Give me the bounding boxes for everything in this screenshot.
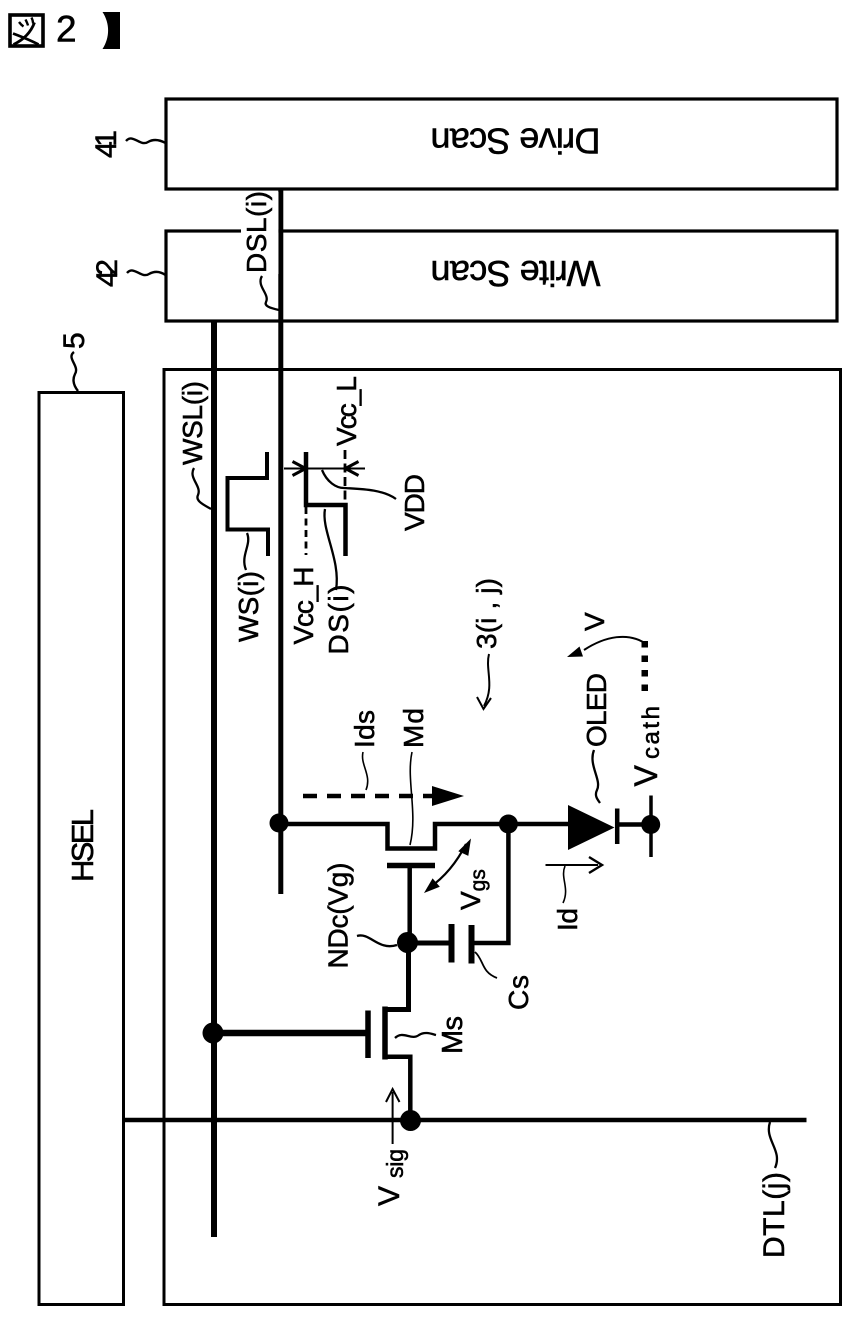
dotted continuation of cathode rail xyxy=(642,641,649,691)
svg-text:5: 5 xyxy=(58,332,91,349)
svg-text:NDc(Vg): NDc(Vg) xyxy=(323,863,354,969)
waveform DS(i) pulse xyxy=(306,452,346,556)
wire cathode to Vcath node xyxy=(619,822,651,827)
wire WSL(i) scan line xyxy=(211,320,217,1237)
svg-text:2: 2 xyxy=(56,9,77,50)
capacitor Cs left plate xyxy=(449,924,455,963)
leader squiggle DSL(i) xyxy=(260,276,279,310)
leader squiggle Md xyxy=(410,752,413,845)
leader squiggle DTL(j) xyxy=(769,1122,777,1168)
diode OLED cathode bar xyxy=(615,809,620,845)
diode OLED anode triangle xyxy=(568,805,615,850)
leader squiggle 42 xyxy=(127,270,166,275)
leader squiggle 41 xyxy=(126,138,166,143)
white mask under DSL(i) label xyxy=(241,192,278,274)
leader squiggle 5 xyxy=(71,352,78,391)
leader squiggle OLED xyxy=(592,750,600,803)
leader squiggle Id xyxy=(563,866,566,903)
arrowhead Ids xyxy=(432,786,464,806)
svg-text:WS(i): WS(i) xyxy=(233,571,264,642)
wire Cs to node NDc xyxy=(408,941,449,946)
leader squiggle WS(i) xyxy=(244,533,248,570)
svg-text:WSL(i): WSL(i) xyxy=(177,381,208,465)
wire power rail with Md channel hump xyxy=(278,824,569,849)
svg-text:Ms: Ms xyxy=(437,1016,469,1054)
dashed level Vcc_L extension xyxy=(344,450,347,501)
svg-text:V: V xyxy=(579,612,610,631)
svg-text:Ids: Ids xyxy=(349,710,380,748)
arrowhead Vsig xyxy=(386,1089,400,1102)
svg-text:V: V xyxy=(373,1186,406,1206)
svg-text:Cs: Cs xyxy=(503,975,534,1010)
svg-text:Vcc_L: Vcc_L xyxy=(331,376,362,446)
svg-text:V: V xyxy=(628,765,664,787)
leader squiggle Ms xyxy=(395,1033,436,1038)
dashed level Vcc_H extension xyxy=(305,507,308,555)
signal arrow Vsig xyxy=(392,1092,394,1144)
transistor Ms channel bar xyxy=(382,1007,388,1060)
leader squiggle NDc xyxy=(357,935,397,946)
arrowhead at Vcc_H level xyxy=(293,462,308,476)
svg-text:HSEL: HSEL xyxy=(65,809,100,882)
block 5 HSEL xyxy=(39,393,124,1305)
svg-text:cath: cath xyxy=(638,706,665,759)
wire from source node down to Cs xyxy=(475,824,509,943)
leader squiggle Cs xyxy=(475,952,497,978)
node junction dot on DTL xyxy=(400,1110,421,1131)
transistor Ms gate bar xyxy=(365,1011,371,1059)
curved arrow V across OLED xyxy=(584,637,643,650)
curved arrow Vgs xyxy=(429,844,466,888)
svg-text:DSL(i): DSL(i) xyxy=(241,191,272,273)
figure title 図2】 xyxy=(10,9,120,50)
leader squiggle Ids xyxy=(363,752,368,790)
svg-text:Id: Id xyxy=(552,908,583,931)
waveform WS(i) pulse xyxy=(228,452,269,556)
current arrow Id xyxy=(546,864,599,866)
terminal bar Vcath rail xyxy=(649,796,653,858)
node NDc junction dot xyxy=(397,932,418,953)
svg-text:sig: sig xyxy=(382,1149,408,1178)
svg-text:Vcc_H: Vcc_H xyxy=(288,567,319,645)
svg-text:Write Scan: Write Scan xyxy=(431,253,601,294)
svg-text:VDD: VDD xyxy=(399,474,430,531)
node junction dot source of Md xyxy=(499,815,518,834)
arrowhead V xyxy=(567,647,583,658)
transistor Md gate bar xyxy=(387,863,435,869)
node junction dot on DSL xyxy=(270,814,289,833)
svg-text:3(i , j): 3(i , j) xyxy=(471,578,502,649)
leader squiggle DS(i) xyxy=(324,509,336,590)
label Vcath xyxy=(628,706,665,787)
arrowhead Id xyxy=(589,857,602,873)
transistor Ms drain lead to NDc xyxy=(385,943,409,1010)
node junction dot on WSL xyxy=(203,1023,224,1044)
wire Ms gate line from WSL xyxy=(214,1030,368,1037)
block 42 Write Scan xyxy=(166,231,837,321)
transistor Ms source lead to DTL xyxy=(385,1057,410,1121)
svg-text:42: 42 xyxy=(91,259,124,287)
arrowhead Vgs upper xyxy=(458,839,471,856)
arrowhead Vgs lower xyxy=(424,878,440,893)
svg-text:Drive Scan: Drive Scan xyxy=(431,121,601,162)
dimension line between levels xyxy=(284,468,365,470)
wire DSL(i) drive line xyxy=(278,188,283,894)
arrowhead at Vcc_L level xyxy=(344,462,359,476)
wire DTL(j) data line xyxy=(125,1118,807,1123)
capacitor Cs right plate xyxy=(469,925,475,964)
block 41 Drive Scan xyxy=(166,99,837,189)
label Vsig xyxy=(373,1149,408,1206)
leader arrow 3(i,j) xyxy=(484,654,489,706)
pixel block 3(i,j) outline xyxy=(164,370,841,1305)
arrowhead 3(i,j) xyxy=(477,697,491,709)
svg-text:Md: Md xyxy=(398,708,429,748)
dashed current arrow Ids xyxy=(303,794,436,799)
svg-text:OLED: OLED xyxy=(581,673,612,747)
leader squiggle VDD xyxy=(322,470,396,499)
transistor Md gate lead xyxy=(407,866,412,943)
leader squiggle WSL(i) xyxy=(192,468,211,509)
node junction dot Vcath xyxy=(641,815,660,834)
svg-text:41: 41 xyxy=(90,130,123,158)
svg-text:DTL(j): DTL(j) xyxy=(758,1172,791,1258)
